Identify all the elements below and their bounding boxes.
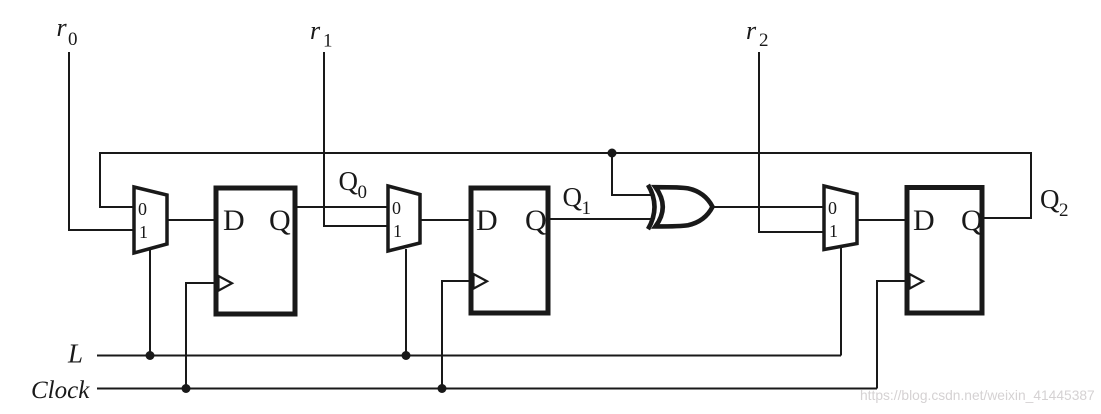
- svg-text:0: 0: [358, 182, 368, 203]
- svg-text:Q: Q: [1040, 184, 1060, 214]
- FF1 clock triangle: [219, 276, 233, 291]
- flip-flop FF1: [216, 188, 295, 314]
- svg-text:0: 0: [392, 198, 401, 218]
- wire feedback net Q2 (FF3 Q output, top rail, down to mux M1 input 0): [100, 153, 1031, 218]
- wire mux M3 output to FF3 D input: [857, 219, 905, 221]
- wire Clock to FF1 clock input: [186, 283, 214, 389]
- multiplexer M2: [388, 186, 420, 251]
- svg-text:1: 1: [323, 31, 333, 52]
- wire mux M2 select to L line: [405, 249, 407, 356]
- wire mux M2 output to FF2 D input: [420, 219, 469, 221]
- svg-text:2: 2: [759, 30, 769, 51]
- svg-text:Clock: Clock: [31, 377, 90, 404]
- node label Q2: [1040, 184, 1069, 221]
- node junction FF2 clock on Clock line: [438, 384, 447, 393]
- svg-text:Q: Q: [563, 182, 583, 212]
- svg-text:https://blog.csdn.net/weixin_4: https://blog.csdn.net/weixin_41445387: [860, 388, 1095, 403]
- input label r2: [746, 16, 769, 51]
- svg-text:D: D: [223, 204, 245, 237]
- svg-text:1: 1: [582, 198, 592, 219]
- wire XOR output to mux M3 input 0: [713, 206, 824, 208]
- svg-text:1: 1: [393, 221, 402, 241]
- wire r2 to mux M3 input 1: [759, 52, 824, 232]
- flip-flop FF2: [471, 188, 548, 313]
- svg-text:r: r: [57, 13, 68, 42]
- flip-flop FF3: [907, 188, 982, 314]
- svg-text:1: 1: [139, 222, 148, 242]
- wire Clock line end up to FF3 clock input: [877, 281, 905, 389]
- wire Q0: FF1 Q output to mux M2 input 0: [297, 206, 388, 208]
- svg-text:0: 0: [68, 29, 78, 50]
- wire Clock line: [97, 388, 877, 390]
- svg-text:2: 2: [1059, 200, 1069, 221]
- wire feedback tap down to XOR top input: [612, 153, 653, 195]
- wire Clock to FF2 clock input: [442, 281, 469, 389]
- wire mux M1 select to L line: [149, 248, 151, 356]
- XOR gate G1 input arc: [648, 185, 655, 229]
- multiplexer M3: [824, 186, 857, 250]
- XOR gate G1 body: [656, 187, 713, 226]
- svg-text:D: D: [913, 204, 935, 237]
- svg-text:L: L: [67, 339, 83, 369]
- node label Q0: [339, 166, 368, 203]
- svg-text:r: r: [746, 16, 757, 45]
- wire r1 to mux M2 input 1: [324, 52, 388, 226]
- node junction FF1 clock on Clock line: [182, 384, 191, 393]
- multiplexer M1: [134, 187, 167, 253]
- FF3 clock triangle: [910, 274, 924, 289]
- node label Q1: [563, 182, 592, 219]
- node junction mux M2 select on L: [402, 351, 411, 360]
- svg-text:Q: Q: [269, 204, 291, 237]
- wire Q1: FF2 Q output to XOR bottom input: [550, 218, 652, 220]
- wire mux M3 select to L line end: [840, 248, 842, 356]
- svg-text:Q: Q: [339, 166, 359, 196]
- wire r0 to mux M1 input 1: [69, 52, 134, 230]
- node junction on feedback rail feeding XOR: [608, 149, 617, 158]
- svg-text:Q: Q: [961, 204, 983, 237]
- svg-text:r: r: [310, 16, 321, 45]
- svg-text:Q: Q: [525, 204, 547, 237]
- node junction mux M1 select on L: [146, 351, 155, 360]
- wire mux M1 output to FF1 D input: [167, 219, 214, 221]
- input label r0: [57, 13, 78, 50]
- svg-text:0: 0: [828, 198, 837, 218]
- svg-text:D: D: [476, 204, 498, 237]
- FF2 clock triangle: [474, 274, 488, 289]
- input label r1: [310, 16, 333, 52]
- svg-text:1: 1: [829, 221, 838, 241]
- wire L line: [97, 355, 841, 357]
- svg-text:0: 0: [138, 199, 147, 219]
